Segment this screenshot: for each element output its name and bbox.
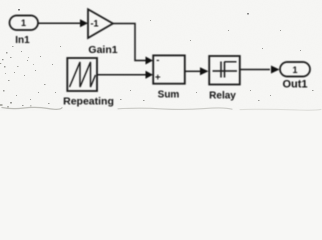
wire In1 to Gain1: [38, 22, 82, 24]
gain block Gain1 (triangle): [88, 9, 113, 38]
relay icon axis: [213, 70, 238, 72]
input port In1: [10, 16, 39, 31]
arrowhead into Sum minus input: [146, 57, 154, 65]
sawtooth waveform icon: [70, 62, 96, 87]
wire Relay to Out1: [240, 69, 270, 71]
relay block Relay: [209, 56, 240, 85]
wire Repeating to Sum plus input: [97, 74, 147, 76]
arrowhead into Gain1: [80, 19, 88, 27]
bottom scan smudge band: [2, 107, 62, 109]
wire Sum to Relay: [185, 70, 201, 72]
wire Gain1 to Sum (right, down, right): [113, 24, 147, 61]
arrowhead into Relay: [200, 67, 209, 75]
sum block Sum: [153, 55, 185, 83]
arrowhead into Sum plus input: [146, 71, 154, 79]
scan speckle noise: [0, 9, 314, 106]
relay icon upper level line: [225, 61, 237, 63]
relay icon left vertical: [220, 62, 222, 78]
source block Repeating (repeating sequence): [67, 58, 97, 91]
arrowhead into Out1: [271, 66, 280, 74]
paper mottling: [0, 0, 1, 1]
relay icon right vertical: [224, 62, 226, 78]
output port Out1: [280, 62, 310, 77]
